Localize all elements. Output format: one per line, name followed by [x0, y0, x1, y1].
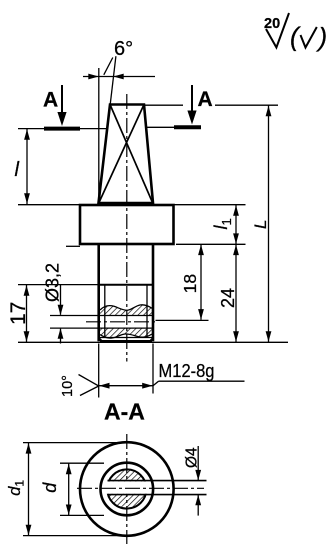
chamfer corner right — [150, 338, 154, 342]
svg-text:Ø3,2: Ø3,2 — [43, 263, 63, 302]
svg-text:L: L — [251, 220, 270, 229]
svg-text:l: l — [15, 159, 20, 181]
hole slot upper edge — [108, 480, 207, 482]
collar bottom extension line right — [176, 243, 246, 245]
shank bottom edge — [100, 340, 152, 343]
6-deg slant extension line — [110, 56, 116, 104]
collar rectangle — [80, 205, 174, 244]
10 deg chamfer angle mark — [60, 375, 99, 398]
svg-text:18: 18 — [180, 274, 200, 293]
6-deg reference vertical line — [98, 68, 100, 202]
svg-text:d: d — [40, 482, 60, 493]
outer circle d1 — [80, 442, 174, 536]
17 dimension — [7, 285, 30, 342]
thread start line across shank — [99, 284, 153, 286]
d dimension line — [40, 464, 71, 516]
middle circle d — [101, 463, 154, 516]
M12 thread extension line right — [152, 344, 154, 394]
d1 dimension extension lines — [23, 442, 122, 444]
section arrow A right — [174, 85, 213, 127]
cross hole centerline — [86, 321, 158, 323]
thread start extension line to left — [18, 284, 99, 286]
18 dim extension line at hole center — [156, 319, 209, 321]
l dimension line — [24, 129, 30, 204]
chamfer corner left — [99, 338, 103, 342]
hole slot lower edge — [108, 494, 207, 496]
18 dimension line — [180, 244, 204, 319]
cross hole lower edge line — [50, 327, 152, 329]
svg-text:6°: 6° — [114, 38, 133, 60]
svg-text:A-A: A-A — [104, 399, 145, 425]
taper flat-face diagonals — [110, 105, 153, 203]
thread minor diameter line left — [104, 285, 106, 338]
collar top extension line left — [18, 204, 80, 206]
6-deg dimension line with arrows — [83, 58, 155, 80]
thread minor diameter line right — [146, 285, 148, 338]
section view horizontal centerline — [77, 487, 204, 489]
M12 thread extension line left — [98, 344, 100, 398]
svg-text:17: 17 — [7, 302, 30, 325]
L dimension line — [251, 106, 271, 343]
section arrow A left — [43, 85, 80, 129]
chamfer line at thread end — [99, 337, 153, 339]
surface finish mark (check) in parens — [290, 22, 327, 53]
24 dimension line — [218, 244, 239, 342]
shank left edge — [97, 244, 100, 341]
dia 4 dimension — [183, 446, 201, 516]
svg-text:24: 24 — [218, 288, 238, 308]
l dimension top extension line — [18, 128, 107, 130]
upper broken-out hatched band — [100, 305, 152, 315]
svg-text:10°: 10° — [60, 375, 76, 397]
M12 dimension line with outward arrows — [99, 383, 153, 389]
centerline main vertical front view — [126, 94, 128, 362]
bottom extension line long — [18, 341, 288, 343]
l1 dimension line — [211, 205, 239, 244]
M12-8g leader shelf and text — [153, 360, 245, 386]
d dimension extension lines — [60, 462, 104, 464]
svg-text:M12-8g: M12-8g — [159, 360, 215, 381]
svg-text:A: A — [198, 88, 213, 111]
cross hole upper edge line — [50, 315, 152, 317]
collar top extension line right — [174, 204, 246, 206]
hatched core circle — [107, 469, 146, 508]
shank right edge — [152, 244, 155, 341]
surface finish mark 20 — [264, 13, 289, 48]
section line thin segment right of taper — [147, 126, 175, 128]
lower broken-out hatched band — [100, 328, 152, 338]
L dimension top extension line segments — [144, 104, 183, 106]
svg-text:Ø4: Ø4 — [183, 447, 200, 468]
svg-text:A: A — [43, 89, 58, 112]
taper (pyramid tip) outline — [99, 105, 154, 204]
dia 3.2 dimension — [43, 263, 64, 344]
d1 dimension line — [6, 443, 31, 536]
collar bottom small tick left — [66, 245, 80, 247]
section view vertical centerline — [126, 434, 128, 544]
hole slot white band — [106, 482, 148, 494]
